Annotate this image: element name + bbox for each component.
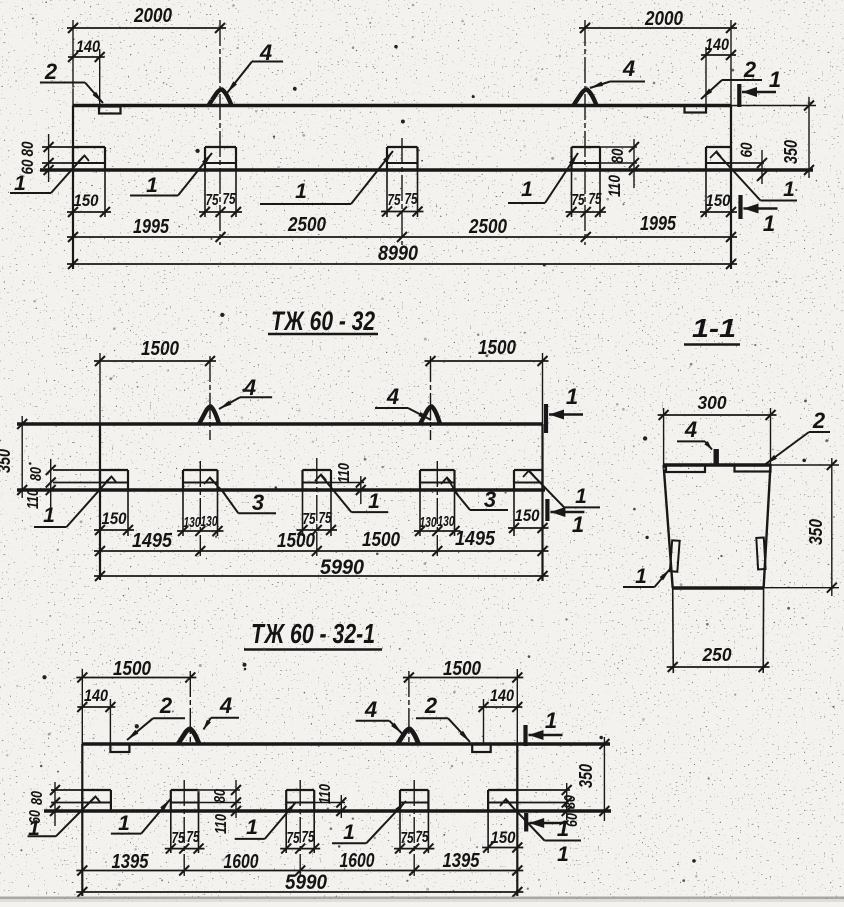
svg-text:5990: 5990 xyxy=(285,871,327,894)
leader 4 left xyxy=(227,40,283,93)
svg-text:4: 4 xyxy=(684,417,697,442)
svg-text:80: 80 xyxy=(608,148,627,163)
svg-text:75: 75 xyxy=(287,830,301,847)
dimension 140 right xyxy=(701,35,736,105)
title ТЖ 60-32 xyxy=(268,306,378,336)
embedded plate 2 left xyxy=(99,107,121,114)
svg-text:130: 130 xyxy=(201,513,218,530)
svg-text:1500: 1500 xyxy=(141,338,179,360)
svg-text:1: 1 xyxy=(295,180,307,203)
svg-text:1: 1 xyxy=(557,816,569,841)
svg-text:1: 1 xyxy=(545,708,557,733)
axis loop right middle xyxy=(430,356,432,440)
svg-text:1: 1 xyxy=(783,178,795,201)
leader 1 notch B5 xyxy=(500,799,581,866)
svg-text:1500: 1500 xyxy=(277,530,315,552)
leader 4 right bottom xyxy=(356,697,402,734)
svg-text:75: 75 xyxy=(405,191,419,208)
svg-text:350: 350 xyxy=(0,449,14,473)
dimension chain 80-110 notch B2 xyxy=(199,780,242,834)
svg-text:75: 75 xyxy=(302,829,316,846)
leader 2 right xyxy=(701,57,762,99)
leader 1 notch M3 xyxy=(315,475,388,514)
svg-text:2: 2 xyxy=(424,693,438,718)
svg-text:1: 1 xyxy=(557,843,569,866)
svg-text:80: 80 xyxy=(18,141,37,156)
svg-text:110: 110 xyxy=(213,814,230,834)
embedded channel 1 right in section xyxy=(756,538,765,570)
beam ТЖ 60-32 top line xyxy=(17,422,543,425)
dimension 1500 right middle xyxy=(425,337,549,424)
svg-text:2: 2 xyxy=(44,59,58,84)
svg-text:150: 150 xyxy=(102,509,127,528)
dimension 75-75 notch M3 xyxy=(297,510,338,535)
dimension 1500 left bottom xyxy=(76,658,196,744)
beam right edge xyxy=(730,106,732,270)
svg-text:2: 2 xyxy=(812,408,826,433)
leader 1 notch B2 xyxy=(111,799,171,835)
embedded plate 2 left in section xyxy=(666,465,705,472)
dimension 5990 middle xyxy=(94,556,549,581)
axis notch B4 xyxy=(413,780,415,876)
notch N1 extension lines left xyxy=(42,147,73,163)
notch hole M4 middle beam xyxy=(420,470,455,536)
dimension 150 right xyxy=(700,191,737,217)
svg-text:1: 1 xyxy=(769,67,781,92)
notch hole B5 bottom beam xyxy=(488,790,517,853)
dimension 75-75 notch N2 xyxy=(199,191,242,217)
leader 2 right bottom xyxy=(416,693,470,742)
dimension 60 right xyxy=(737,142,767,184)
lifting loop 4 right bottom xyxy=(398,729,419,744)
svg-text:3: 3 xyxy=(252,490,264,515)
leader 1 notch B1 xyxy=(28,797,101,841)
section cut 1 top right bottom xyxy=(526,708,563,746)
svg-text:1: 1 xyxy=(635,565,647,588)
svg-text:4: 4 xyxy=(243,375,256,400)
leader 1 notch N4 xyxy=(508,153,578,203)
dimension 130-130 notch M4 xyxy=(414,513,461,536)
dimension 1500 left middle xyxy=(94,338,216,424)
svg-text:75: 75 xyxy=(572,192,586,209)
dimension 1500 right bottom xyxy=(403,658,523,744)
svg-text:3: 3 xyxy=(484,487,496,512)
svg-text:4: 4 xyxy=(622,56,635,81)
svg-text:1: 1 xyxy=(521,178,533,201)
embedded plate 2 right bottom xyxy=(472,744,491,752)
svg-text:2500: 2500 xyxy=(468,216,507,238)
svg-text:1: 1 xyxy=(28,817,40,840)
embedded plate 2 left bottom xyxy=(110,744,129,752)
svg-text:110: 110 xyxy=(336,463,353,483)
notch hole B2 bottom beam xyxy=(171,790,199,853)
svg-text:2500: 2500 xyxy=(287,214,326,236)
axis notch B3 xyxy=(299,780,301,876)
svg-text:1: 1 xyxy=(368,490,380,513)
svg-text:1: 1 xyxy=(763,211,775,236)
svg-text:1500: 1500 xyxy=(362,529,400,551)
svg-text:140: 140 xyxy=(490,686,514,705)
svg-text:80: 80 xyxy=(29,791,46,805)
svg-text:1495: 1495 xyxy=(455,528,496,550)
svg-text:80: 80 xyxy=(212,789,229,803)
axis notch M4 xyxy=(436,461,438,556)
notch hole M1 middle beam xyxy=(100,470,128,536)
lifting loop 4 left middle xyxy=(199,406,219,424)
axis notch B2 xyxy=(183,780,185,876)
leader 4 left middle xyxy=(219,375,272,409)
leader 1 notch N5 xyxy=(710,152,797,202)
leader 2 left xyxy=(40,59,103,103)
notch hole N5 top beam xyxy=(706,147,731,217)
notch hole M5 middle beam xyxy=(514,470,543,536)
leader 1 notch M1 xyxy=(34,477,116,528)
section cut 1 bottom right middle xyxy=(547,499,584,537)
leader 1 notch M5 xyxy=(523,471,600,509)
svg-text:1: 1 xyxy=(575,485,587,508)
svg-text:350: 350 xyxy=(806,519,826,545)
beam ТЖ 60-32-1 bottom line xyxy=(44,809,611,812)
svg-text:150: 150 xyxy=(515,506,540,525)
beam ТЖ 60-32-1 left edge xyxy=(81,744,83,896)
svg-text:110: 110 xyxy=(25,489,42,509)
dimension 150 left middle xyxy=(94,509,134,535)
leader 1 notch B3 xyxy=(235,802,296,839)
leader 4 section xyxy=(677,417,712,450)
leader 1 notch B4 xyxy=(332,801,406,844)
svg-text:75: 75 xyxy=(172,830,186,847)
dimension 2000 right xyxy=(579,8,737,106)
axis line through loop/notch x=220 xyxy=(219,20,221,245)
svg-text:4: 4 xyxy=(219,693,232,718)
dimension 75-75 notch B2 xyxy=(165,829,205,854)
svg-text:75: 75 xyxy=(388,192,402,209)
svg-text:150: 150 xyxy=(706,191,731,210)
title 1-1 xyxy=(684,313,740,345)
dimension 130-130 notch M2 xyxy=(177,513,224,536)
svg-text:130: 130 xyxy=(184,514,201,531)
beam left edge xyxy=(72,106,74,270)
svg-text:75: 75 xyxy=(416,829,430,846)
svg-text:1395: 1395 xyxy=(443,850,481,872)
notch hole N1 top beam xyxy=(73,147,105,217)
svg-text:1: 1 xyxy=(146,174,158,197)
svg-text:1: 1 xyxy=(246,816,258,839)
notch hole B1 bottom beam xyxy=(82,790,111,811)
notch hole M2 middle beam xyxy=(183,470,218,536)
dimension chain 80-60 left bottom xyxy=(27,782,60,826)
axis line through loop/notch x=585 xyxy=(584,20,586,245)
svg-text:140: 140 xyxy=(84,686,108,705)
svg-text:1495: 1495 xyxy=(132,530,173,552)
notch hole N3 top beam xyxy=(387,147,418,217)
svg-text:1395: 1395 xyxy=(112,851,150,873)
beam ТЖ 60-32 bottom line xyxy=(17,488,545,491)
dimension 75-75 notch N3 xyxy=(381,191,424,217)
beam ТЖ 60-32-1 top line xyxy=(82,742,610,745)
svg-text:4: 4 xyxy=(364,697,377,722)
svg-text:1: 1 xyxy=(572,512,584,537)
dimension 110 notch B3 xyxy=(314,784,346,818)
svg-text:1-1: 1-1 xyxy=(692,313,736,343)
svg-text:300: 300 xyxy=(698,393,727,413)
svg-text:1995: 1995 xyxy=(133,216,170,238)
dimension chain 80-60 left xyxy=(18,134,54,182)
leader 2 left bottom xyxy=(127,693,185,740)
leader 3 notch M4 xyxy=(441,478,508,513)
dimension 8990 overall xyxy=(67,242,737,269)
beam ТЖ 60-32 left edge xyxy=(99,424,101,580)
svg-text:75: 75 xyxy=(303,511,317,528)
section cut 1 top right middle xyxy=(546,384,583,433)
embedded channel 1 left in section xyxy=(670,540,680,571)
dimension 250 section xyxy=(667,645,770,672)
svg-text:2000: 2000 xyxy=(644,8,683,30)
dimension 350 right bottom xyxy=(576,737,609,821)
svg-text:60: 60 xyxy=(737,142,756,157)
svg-text:350: 350 xyxy=(781,140,801,164)
svg-text:140: 140 xyxy=(76,37,100,56)
svg-text:ТЖ 60 - 32: ТЖ 60 - 32 xyxy=(271,306,375,336)
svg-text:110: 110 xyxy=(317,784,334,804)
svg-text:250: 250 xyxy=(702,645,732,665)
svg-text:150: 150 xyxy=(74,191,99,210)
svg-text:8990: 8990 xyxy=(378,242,418,265)
dimension 150 left xyxy=(67,191,111,217)
dimension chain 80-60 right bottom xyxy=(562,783,581,827)
svg-text:75: 75 xyxy=(319,510,333,527)
dimension 75-75 notch B3 xyxy=(280,829,320,854)
svg-text:80: 80 xyxy=(28,467,45,481)
svg-text:1: 1 xyxy=(566,384,578,409)
svg-text:350: 350 xyxy=(576,764,596,788)
notch N5 extension line right xyxy=(731,162,764,164)
embedded plate 2 right xyxy=(685,106,707,113)
lifting loop 4 left xyxy=(209,89,232,105)
beam elevation top line xyxy=(73,104,731,108)
svg-text:130: 130 xyxy=(438,513,455,530)
leader 1 notch N1 xyxy=(10,156,89,196)
svg-text:2: 2 xyxy=(159,693,173,718)
dimension 5990 bottom xyxy=(76,871,523,897)
beam ТЖ 60-32 right edge xyxy=(541,424,543,581)
svg-text:1500: 1500 xyxy=(443,658,481,680)
dimension 350 right xyxy=(731,97,816,178)
svg-text:4: 4 xyxy=(386,384,399,409)
leader 4 left bottom xyxy=(204,693,240,730)
section cut 1 bottom right bottom xyxy=(526,813,569,841)
svg-text:4: 4 xyxy=(259,40,272,65)
leader 3 notch M2 xyxy=(204,478,276,516)
notch hole B4 bottom beam xyxy=(400,790,428,853)
dimension 110 notch M3 xyxy=(331,463,366,504)
svg-text:140: 140 xyxy=(705,35,729,54)
leader 4 right xyxy=(590,56,645,88)
svg-text:1: 1 xyxy=(118,812,130,835)
dimension chain 80-110 notch N4 xyxy=(600,139,639,197)
svg-text:75: 75 xyxy=(589,191,603,208)
svg-text:130: 130 xyxy=(420,514,437,531)
dimension chain 1995-2500-2500-1995 xyxy=(67,213,737,242)
dimension 140 left xyxy=(68,37,105,106)
svg-text:5990: 5990 xyxy=(320,556,364,579)
section side extension lines xyxy=(673,588,764,673)
dimension chain 1495-1500-1500-1495 middle xyxy=(94,528,549,556)
notch M1 extension lines left xyxy=(53,470,100,483)
axis loop right bottom xyxy=(408,671,410,744)
dimension 140 right bottom xyxy=(479,686,523,744)
dimension 140 left bottom xyxy=(77,686,115,744)
svg-text:1: 1 xyxy=(343,821,355,844)
axis loop left bottom xyxy=(189,671,191,744)
section body outline xyxy=(664,465,771,588)
svg-text:1600: 1600 xyxy=(224,851,259,873)
dimension 300 section xyxy=(658,393,777,465)
svg-text:75: 75 xyxy=(187,829,201,846)
notch hole N2 top beam xyxy=(205,147,236,217)
leader 4 right middle xyxy=(375,384,431,420)
notch B5 extension lines right xyxy=(517,790,570,803)
dimension 2000 left xyxy=(67,5,226,106)
svg-text:75: 75 xyxy=(401,830,415,847)
svg-text:75: 75 xyxy=(223,191,237,208)
svg-text:1500: 1500 xyxy=(113,658,151,680)
svg-text:2000: 2000 xyxy=(133,5,172,27)
axis line notch N3 xyxy=(401,138,403,245)
beam elevation bottom line xyxy=(40,168,813,171)
dimension chain 1395-1600-1600-1395 bottom xyxy=(76,850,523,876)
notch hole M3 middle beam xyxy=(303,470,332,536)
notch hole N4 top beam xyxy=(572,147,601,217)
dimension 150 right middle xyxy=(508,506,549,533)
dimension 75-75 notch B4 xyxy=(394,829,434,854)
leader 1 notch N3 xyxy=(260,151,393,204)
axis notch M2 xyxy=(199,461,201,556)
embedded plate 2 right in section xyxy=(735,465,771,472)
beam ТЖ 60-32-1 right edge xyxy=(516,744,518,896)
lifting loop 4 right xyxy=(574,89,597,105)
svg-text:1500: 1500 xyxy=(478,337,516,359)
title ТЖ 60-32-1 xyxy=(244,618,382,650)
axis notch M3 xyxy=(316,458,318,556)
svg-text:75: 75 xyxy=(206,192,220,209)
notch hole B3 bottom beam xyxy=(286,790,314,853)
dimension 350 left middle xyxy=(0,416,27,498)
dimension 150 right bottom notch xyxy=(482,828,523,853)
section cut 1 bottom right xyxy=(741,195,778,236)
scan edge gray band xyxy=(0,897,844,903)
dimension 75-75 notch N4 xyxy=(566,191,607,217)
lifting loop 4 left bottom xyxy=(178,729,199,744)
section cut 1 top right xyxy=(739,67,781,107)
svg-text:ТЖ 60 - 32-1: ТЖ 60 - 32-1 xyxy=(251,618,375,649)
svg-text:150: 150 xyxy=(491,828,516,847)
svg-text:1: 1 xyxy=(14,172,26,195)
leader 2 section xyxy=(765,408,830,465)
leader 1 section xyxy=(623,565,670,588)
svg-text:1: 1 xyxy=(43,504,55,527)
dimension 350 section xyxy=(764,458,839,596)
svg-text:110: 110 xyxy=(605,175,624,197)
svg-text:1995: 1995 xyxy=(640,213,677,235)
loop 4 cross-section bar xyxy=(714,449,719,465)
lifting loop 4 right middle xyxy=(420,406,440,424)
svg-text:80: 80 xyxy=(562,795,579,809)
svg-text:2: 2 xyxy=(743,57,757,82)
axis loop left middle xyxy=(209,356,211,440)
leader 1 notch N2 xyxy=(130,153,212,197)
svg-text:1600: 1600 xyxy=(340,850,375,872)
notch B1 extension lines left xyxy=(51,790,82,803)
dimension chain 80-110 left middle xyxy=(25,459,56,509)
